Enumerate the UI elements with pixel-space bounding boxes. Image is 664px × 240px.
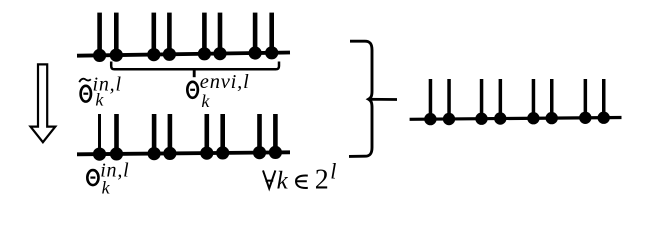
top comb tooth 5 bbox=[198, 13, 211, 61]
bottom comb tooth 3 bbox=[148, 114, 161, 160]
top comb baseline wire bbox=[77, 53, 290, 56]
dash connector at brace tip bbox=[369, 98, 397, 101]
bottom comb tooth 8 bbox=[269, 114, 282, 159]
big right brace bbox=[349, 41, 372, 156]
label theta k envi,l : Theta bbox=[187, 82, 198, 98]
top comb tooth 2 bbox=[110, 13, 123, 62]
label theta-tilde k in,l : Theta bbox=[81, 86, 91, 102]
svg-text:k: k bbox=[95, 89, 104, 109]
underbrace bracket bbox=[111, 62, 279, 78]
right comb baseline wire bbox=[410, 118, 622, 120]
svg-text:k: k bbox=[201, 91, 210, 111]
right comb tooth 8 bbox=[598, 79, 610, 124]
label theta k in,l : Theta bbox=[87, 170, 98, 185]
svg-text:2: 2 bbox=[315, 165, 329, 196]
label forall k in 2^l : forall symbol bbox=[263, 170, 275, 188]
bottom comb tooth 4 bbox=[163, 114, 176, 160]
svg-text:l: l bbox=[330, 158, 336, 183]
right comb tooth 5 bbox=[527, 79, 539, 124]
svg-text:k: k bbox=[277, 168, 289, 195]
bottom comb tooth 6 bbox=[216, 114, 229, 159]
right comb tooth 3 bbox=[475, 79, 487, 125]
bottom comb tooth 1 bbox=[93, 114, 106, 161]
right comb tooth 6 bbox=[546, 79, 558, 124]
top comb tooth 6 bbox=[213, 13, 226, 61]
bottom comb tooth 2 bbox=[110, 114, 123, 160]
svg-text:k: k bbox=[102, 178, 111, 198]
right comb tooth 4 bbox=[494, 79, 506, 125]
right comb tooth 1 bbox=[424, 79, 436, 125]
hollow down arrow bbox=[31, 64, 56, 142]
top comb tooth 7 bbox=[249, 13, 262, 60]
bottom comb baseline wire bbox=[77, 152, 290, 154]
bottom comb tooth 5 bbox=[200, 114, 213, 160]
label theta-tilde k in,l : tilde bbox=[79, 79, 91, 82]
bottom comb tooth 7 bbox=[253, 114, 266, 159]
top comb tooth 4 bbox=[163, 13, 176, 61]
right comb tooth 7 bbox=[579, 79, 591, 124]
top comb tooth 8 bbox=[265, 13, 278, 60]
top comb tooth 1 bbox=[93, 13, 106, 62]
right comb tooth 2 bbox=[443, 79, 455, 125]
top comb tooth 3 bbox=[147, 13, 160, 62]
label forall k in 2^l : element-of symbol bbox=[296, 176, 308, 188]
